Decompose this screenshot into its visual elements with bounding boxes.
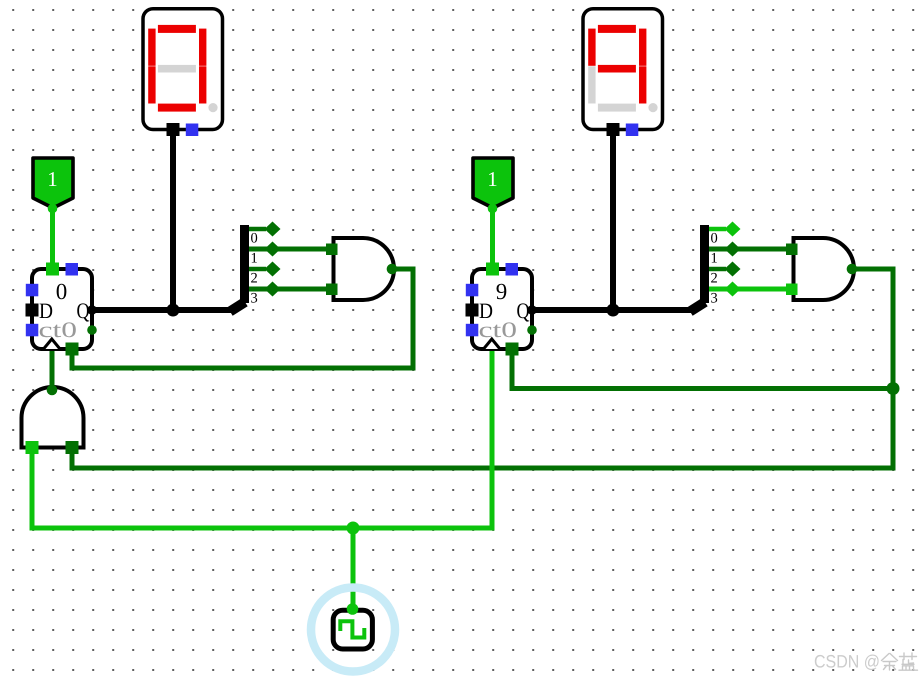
U3 output dot (low) bbox=[47, 385, 58, 396]
S1 out 3 diamond bbox=[265, 282, 281, 297]
CNT1 output Q (black dot) bbox=[87, 305, 97, 315]
S2 out 2 diamond bbox=[725, 262, 741, 277]
DISP1 segment top (on) bbox=[158, 25, 196, 33]
U2 output dot (low) bbox=[847, 264, 858, 275]
junction node clock net bbox=[347, 522, 360, 535]
svg-text:ct0: ct0 bbox=[39, 317, 78, 342]
DISP1 pin select (blue square) bbox=[186, 124, 199, 137]
svg-text:1: 1 bbox=[47, 167, 58, 191]
svg-text:2: 2 bbox=[711, 271, 718, 287]
CNT1 output ovf (dark green dot) bbox=[87, 325, 97, 335]
DISP1 segment middle (off) bbox=[158, 65, 196, 73]
DISP2 pin dataIn (black square) bbox=[607, 123, 620, 136]
CNT2 output ovf (dark green dot) bbox=[527, 325, 537, 335]
splitter S2 bbox=[690, 222, 786, 312]
S1 out 1 diamond bbox=[265, 242, 281, 257]
S1 out 0 stub (low) bbox=[249, 227, 266, 232]
S2 input angle segment bbox=[690, 302, 705, 312]
AND gate U1 bbox=[326, 238, 397, 300]
WIRES-LAYER bbox=[32, 128, 893, 608]
counter CNT2 (value 9) bbox=[466, 263, 537, 356]
DISP2 pin select (blue square) bbox=[626, 124, 639, 137]
CNT2 pin en (blue square top) bbox=[506, 263, 519, 276]
wire: counter CNT2 ct0 input from AND U2 net (low) bbox=[512, 348, 893, 389]
svg-text:0: 0 bbox=[56, 279, 68, 304]
U3 input square right (low) bbox=[66, 441, 79, 454]
CNT1 pin ct0 (dark green square bottom) bbox=[66, 343, 79, 356]
wire: counter CNT1 Q output bus to splitter S1 bbox=[92, 307, 233, 313]
wire: input IN1 to counter CNT1 C-in (high) bbox=[50, 206, 55, 270]
CNT1 pin (blue square left lower) bbox=[26, 324, 39, 337]
input pin IN1 value 1 bbox=[33, 158, 73, 213]
svg-text:1: 1 bbox=[251, 251, 258, 267]
wire: input IN2 to counter CNT2 C-in (high) bbox=[490, 206, 495, 270]
wire: display DISP1 pin to Q bus node bbox=[170, 128, 176, 310]
wire: display DISP2 pin to Q bus node bbox=[610, 128, 616, 310]
S2 out 1 diamond bbox=[725, 242, 741, 257]
CLK1 body bbox=[333, 610, 372, 649]
S2 out 1 wire to U2 (low) bbox=[709, 247, 786, 252]
CNT1 clock edge triangle bbox=[44, 339, 61, 349]
svg-text:0: 0 bbox=[711, 231, 718, 247]
U1 input square 3 (low) bbox=[326, 284, 338, 296]
AND gate U3 (rotated, output up) bbox=[22, 385, 84, 454]
7-segment display DISP2 (shows 9) bbox=[583, 9, 663, 136]
svg-text:3: 3 bbox=[251, 291, 258, 307]
DISP2 segment top-right (on) bbox=[639, 29, 646, 66]
input pin IN2 value 1 bbox=[473, 158, 513, 213]
DISP2 segment top-left (on) bbox=[588, 29, 595, 66]
CNT2 clock edge triangle bbox=[484, 339, 501, 349]
U1 input square 1 (low) bbox=[326, 244, 338, 256]
U1 output dot (low) bbox=[387, 264, 398, 275]
watermark CSDN bbox=[814, 652, 918, 672]
CNT1 pin D (black square left) bbox=[26, 304, 39, 317]
S1 out 2 stub (low) bbox=[249, 267, 266, 272]
splitter S1 bbox=[230, 222, 326, 312]
svg-text:3: 3 bbox=[711, 291, 718, 307]
U2 input square 1 (low) bbox=[786, 244, 798, 256]
DISP1 segment top-right (on) bbox=[199, 29, 206, 66]
wire: counter CNT2 Q output bus to splitter S2 bbox=[532, 307, 693, 313]
U2 input square 3 (high) bbox=[786, 284, 798, 296]
DISP2 segment middle (on) bbox=[598, 65, 636, 73]
S2 out 3 diamond bbox=[725, 282, 741, 297]
clock CLK1 (selected, halo) bbox=[311, 588, 395, 672]
svg-text:1: 1 bbox=[711, 251, 718, 267]
wire: clock net horizontal (high) bbox=[32, 348, 492, 528]
svg-text:1: 1 bbox=[487, 167, 498, 191]
CNT2 pin ct0 (dark green square bottom) bbox=[506, 343, 519, 356]
CLK1 square-wave symbol bbox=[340, 621, 364, 637]
DISP2 segment top (on) bbox=[598, 25, 636, 33]
CNT2 pin (blue square left upper) bbox=[466, 284, 479, 297]
S2 out 3 wire to U2 (high) bbox=[709, 287, 786, 292]
junction node on DISP1 bus bbox=[167, 304, 180, 317]
svg-text:ct0: ct0 bbox=[479, 317, 518, 342]
S1 out 2 diamond bbox=[265, 262, 281, 277]
CNT2 pin (blue square left lower) bbox=[466, 324, 479, 337]
DISP2 decimal point (off) bbox=[648, 103, 657, 112]
AND gate U2 bbox=[786, 238, 857, 300]
DISP2 segment bottom-left (off) bbox=[588, 66, 595, 103]
7-segment display DISP1 (shows 0) bbox=[143, 9, 223, 136]
DISP1 segment bottom-right (on) bbox=[199, 66, 206, 103]
S2 out 0 stub (high) bbox=[709, 227, 726, 232]
junction node on DISP2 bus bbox=[607, 304, 620, 317]
S1 bar bbox=[240, 225, 249, 303]
DISP2 segment bottom-right (on) bbox=[639, 66, 646, 103]
svg-text:Q: Q bbox=[77, 298, 90, 323]
wire: clock CLK1 up to clock net (high) bbox=[351, 528, 356, 608]
S2 bar bbox=[700, 225, 709, 303]
CNT1 pin C-in (green square, connected high) bbox=[46, 263, 59, 276]
S2 out 2 stub (low) bbox=[709, 267, 726, 272]
svg-text:2: 2 bbox=[251, 271, 258, 287]
junction node right vertical / ct0-2 branch bbox=[887, 382, 900, 395]
wire: AND U3 output to counter CNT1 clock input (low) bbox=[50, 348, 55, 390]
svg-text:9: 9 bbox=[496, 279, 508, 304]
CNT2 pin C-in (green square, connected high) bbox=[486, 263, 499, 276]
svg-text:Q: Q bbox=[517, 298, 530, 323]
DISP1 segment bottom-left (on) bbox=[148, 66, 155, 103]
S1 out 0 diamond bbox=[265, 222, 281, 237]
DISP2 segment bottom (off) bbox=[598, 104, 636, 112]
U3 input square left (high, clock) bbox=[26, 441, 39, 454]
CLK1 output dot (high) bbox=[347, 603, 359, 615]
S1 out 3 wire to U1 (low) bbox=[249, 287, 326, 292]
svg-text:0: 0 bbox=[251, 231, 258, 247]
svg-text:CSDN @: CSDN @ bbox=[814, 652, 880, 672]
CNT2 pin D (black square left) bbox=[466, 304, 479, 317]
DISP1 segment bottom (on) bbox=[158, 104, 196, 112]
S1 out 1 wire to U1 (low) bbox=[249, 247, 326, 252]
counter CNT1 (value 0) bbox=[26, 263, 97, 356]
DISP1 decimal point (off) bbox=[208, 103, 217, 112]
CNT1 pin (blue square left upper) bbox=[26, 284, 39, 297]
wire: AND U2 output down right side to AND U3 input (low) bbox=[72, 269, 893, 468]
wire: AND U1 output to counter CNT1 ct0 input (low) bbox=[72, 269, 413, 368]
DISP1 pin dataIn (black square) bbox=[167, 123, 180, 136]
CNT2 output Q (black dot) bbox=[527, 305, 537, 315]
S2 out 0 diamond bbox=[725, 222, 741, 237]
CLK1 selection halo bbox=[311, 588, 395, 672]
DISP1 segment top-left (on) bbox=[148, 29, 155, 66]
CNT1 pin en (blue square top) bbox=[66, 263, 79, 276]
S1 input angle segment bbox=[230, 302, 245, 312]
